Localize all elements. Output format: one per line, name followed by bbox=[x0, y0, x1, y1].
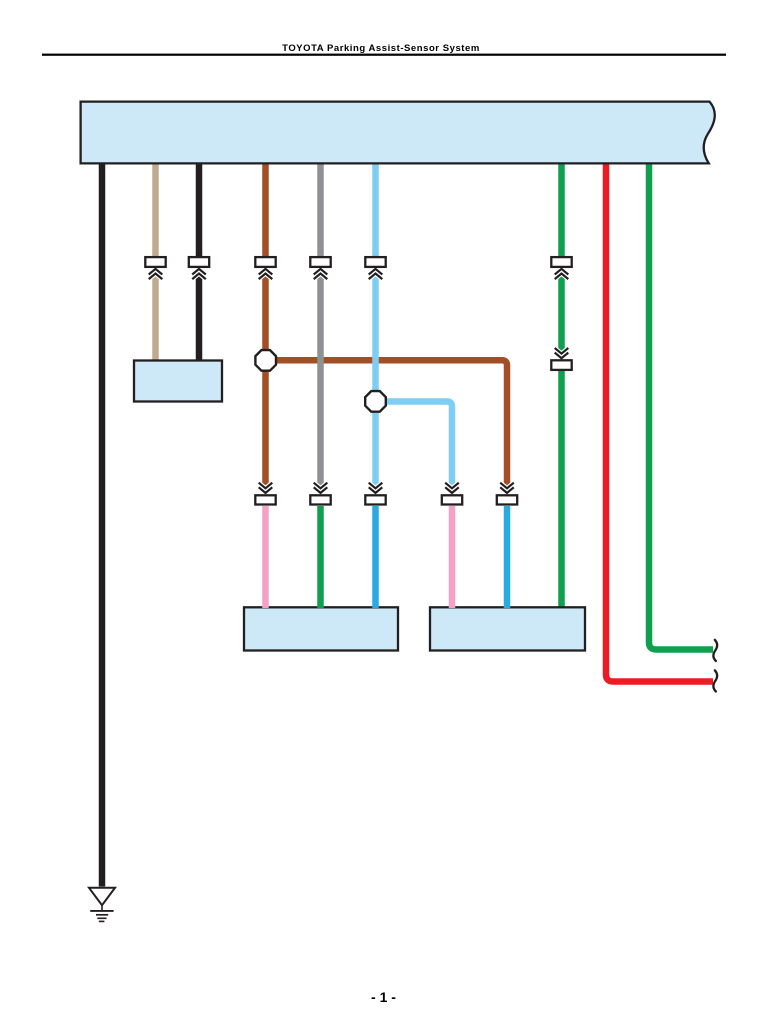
wire: green from lower connector G to sensor box 1 bbox=[317, 506, 324, 608]
connector pair upper half (green, arrows up) bbox=[551, 257, 571, 279]
wire: green from lower pair half to sensor box 2 bbox=[558, 371, 565, 611]
ground symbol bbox=[89, 888, 115, 922]
wire: gray from connector D to lower connector G bbox=[317, 273, 324, 488]
wire: brown vertical below junction J1 to lower connector F bbox=[262, 368, 269, 487]
wire: blue from lower connector K to sensor box 2 bbox=[504, 506, 511, 608]
wire: blue from lower connector H to sensor box 1 bbox=[372, 506, 379, 608]
wire: brown from connector C to junction J1 bbox=[262, 273, 269, 353]
lower connector H (light blue to blue, arrows down) bbox=[365, 483, 385, 505]
sensor box 1 bbox=[244, 607, 398, 650]
wire: brown from ECU to connector C bbox=[262, 160, 269, 257]
sensor box 2 bbox=[430, 607, 585, 650]
wire: green 2 from ECU curving right off-page bbox=[649, 160, 713, 650]
connector B (black, arrows up) bbox=[189, 257, 209, 279]
wire: light-blue from ECU to connector E bbox=[372, 160, 379, 257]
wire: tan from connector A to relay box bbox=[152, 273, 159, 362]
junction J2 (octagon) on light-blue wire bbox=[365, 391, 386, 412]
wire: tan from ECU to connector A bbox=[152, 160, 159, 257]
break squiggle on green wire bbox=[713, 640, 717, 661]
wire: light-blue from connector E to junction J2 bbox=[372, 273, 379, 394]
wire: pink from lower connector F to sensor box 1 bbox=[262, 506, 269, 608]
connector pair lower half (green, arrows down onto rect) bbox=[551, 348, 571, 370]
lower connector I (light blue to pink, arrows down) bbox=[442, 483, 462, 505]
title underline rule bbox=[42, 54, 726, 56]
connector A (tan, arrows up) bbox=[145, 257, 165, 279]
wire: black B2 from connector B to relay box bbox=[196, 273, 203, 362]
wire: light-blue branch from junction J2 right and down to lower connector I bbox=[386, 402, 452, 488]
wire: black B2 from ECU to connector B bbox=[196, 160, 203, 257]
svg-text:- 1 -: - 1 - bbox=[371, 989, 396, 1005]
break squiggle on red wire bbox=[713, 670, 717, 691]
connector C (brown, arrows up) bbox=[255, 257, 275, 279]
lower connector G (gray to green, arrows down) bbox=[310, 483, 330, 505]
wire: green between connector pair halves bbox=[558, 273, 565, 352]
wire: light-blue below junction J2 to lower connector H bbox=[372, 410, 379, 487]
lower connector K (brown to blue, arrows down) bbox=[497, 483, 517, 505]
wire: red from ECU curving right off-page bbox=[606, 160, 713, 682]
wire: gray from ECU to connector D bbox=[317, 160, 324, 257]
wire: pink from lower connector I to sensor box 2 bbox=[449, 506, 456, 608]
lower connector F (brown to pink, arrows down) bbox=[255, 483, 275, 505]
connector E (light blue, arrows up) bbox=[365, 257, 385, 279]
ECU box (light blue, torn right edge) bbox=[81, 102, 715, 164]
wire: black B1 from ECU to ground bbox=[99, 160, 106, 887]
svg-text:TOYOTA Parking Assist-Sensor S: TOYOTA Parking Assist-Sensor System bbox=[282, 43, 480, 54]
wire: green from ECU to connector pair bbox=[558, 160, 565, 257]
relay box (small light blue) bbox=[134, 361, 222, 402]
wire: brown branch from junction J1 right and down to lower connector K bbox=[276, 360, 507, 487]
junction J1 (octagon) on brown wire bbox=[255, 350, 276, 371]
connector D (gray, arrows up) bbox=[310, 257, 330, 279]
